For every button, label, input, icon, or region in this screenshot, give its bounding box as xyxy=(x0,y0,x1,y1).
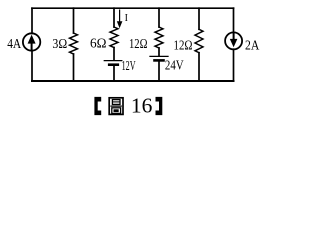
svg-text:12Ω: 12Ω xyxy=(174,38,193,53)
svg-text:12Ω: 12Ω xyxy=(129,37,148,52)
svg-text:16: 16 xyxy=(131,94,153,118)
svg-text:I: I xyxy=(125,13,128,24)
svg-text:24V: 24V xyxy=(165,59,184,74)
svg-text:6Ω: 6Ω xyxy=(90,37,107,52)
svg-text:2A: 2A xyxy=(245,39,260,54)
svg-text:3Ω: 3Ω xyxy=(52,37,67,52)
svg-text:12V: 12V xyxy=(122,59,136,74)
svg-text:4A: 4A xyxy=(7,37,22,52)
